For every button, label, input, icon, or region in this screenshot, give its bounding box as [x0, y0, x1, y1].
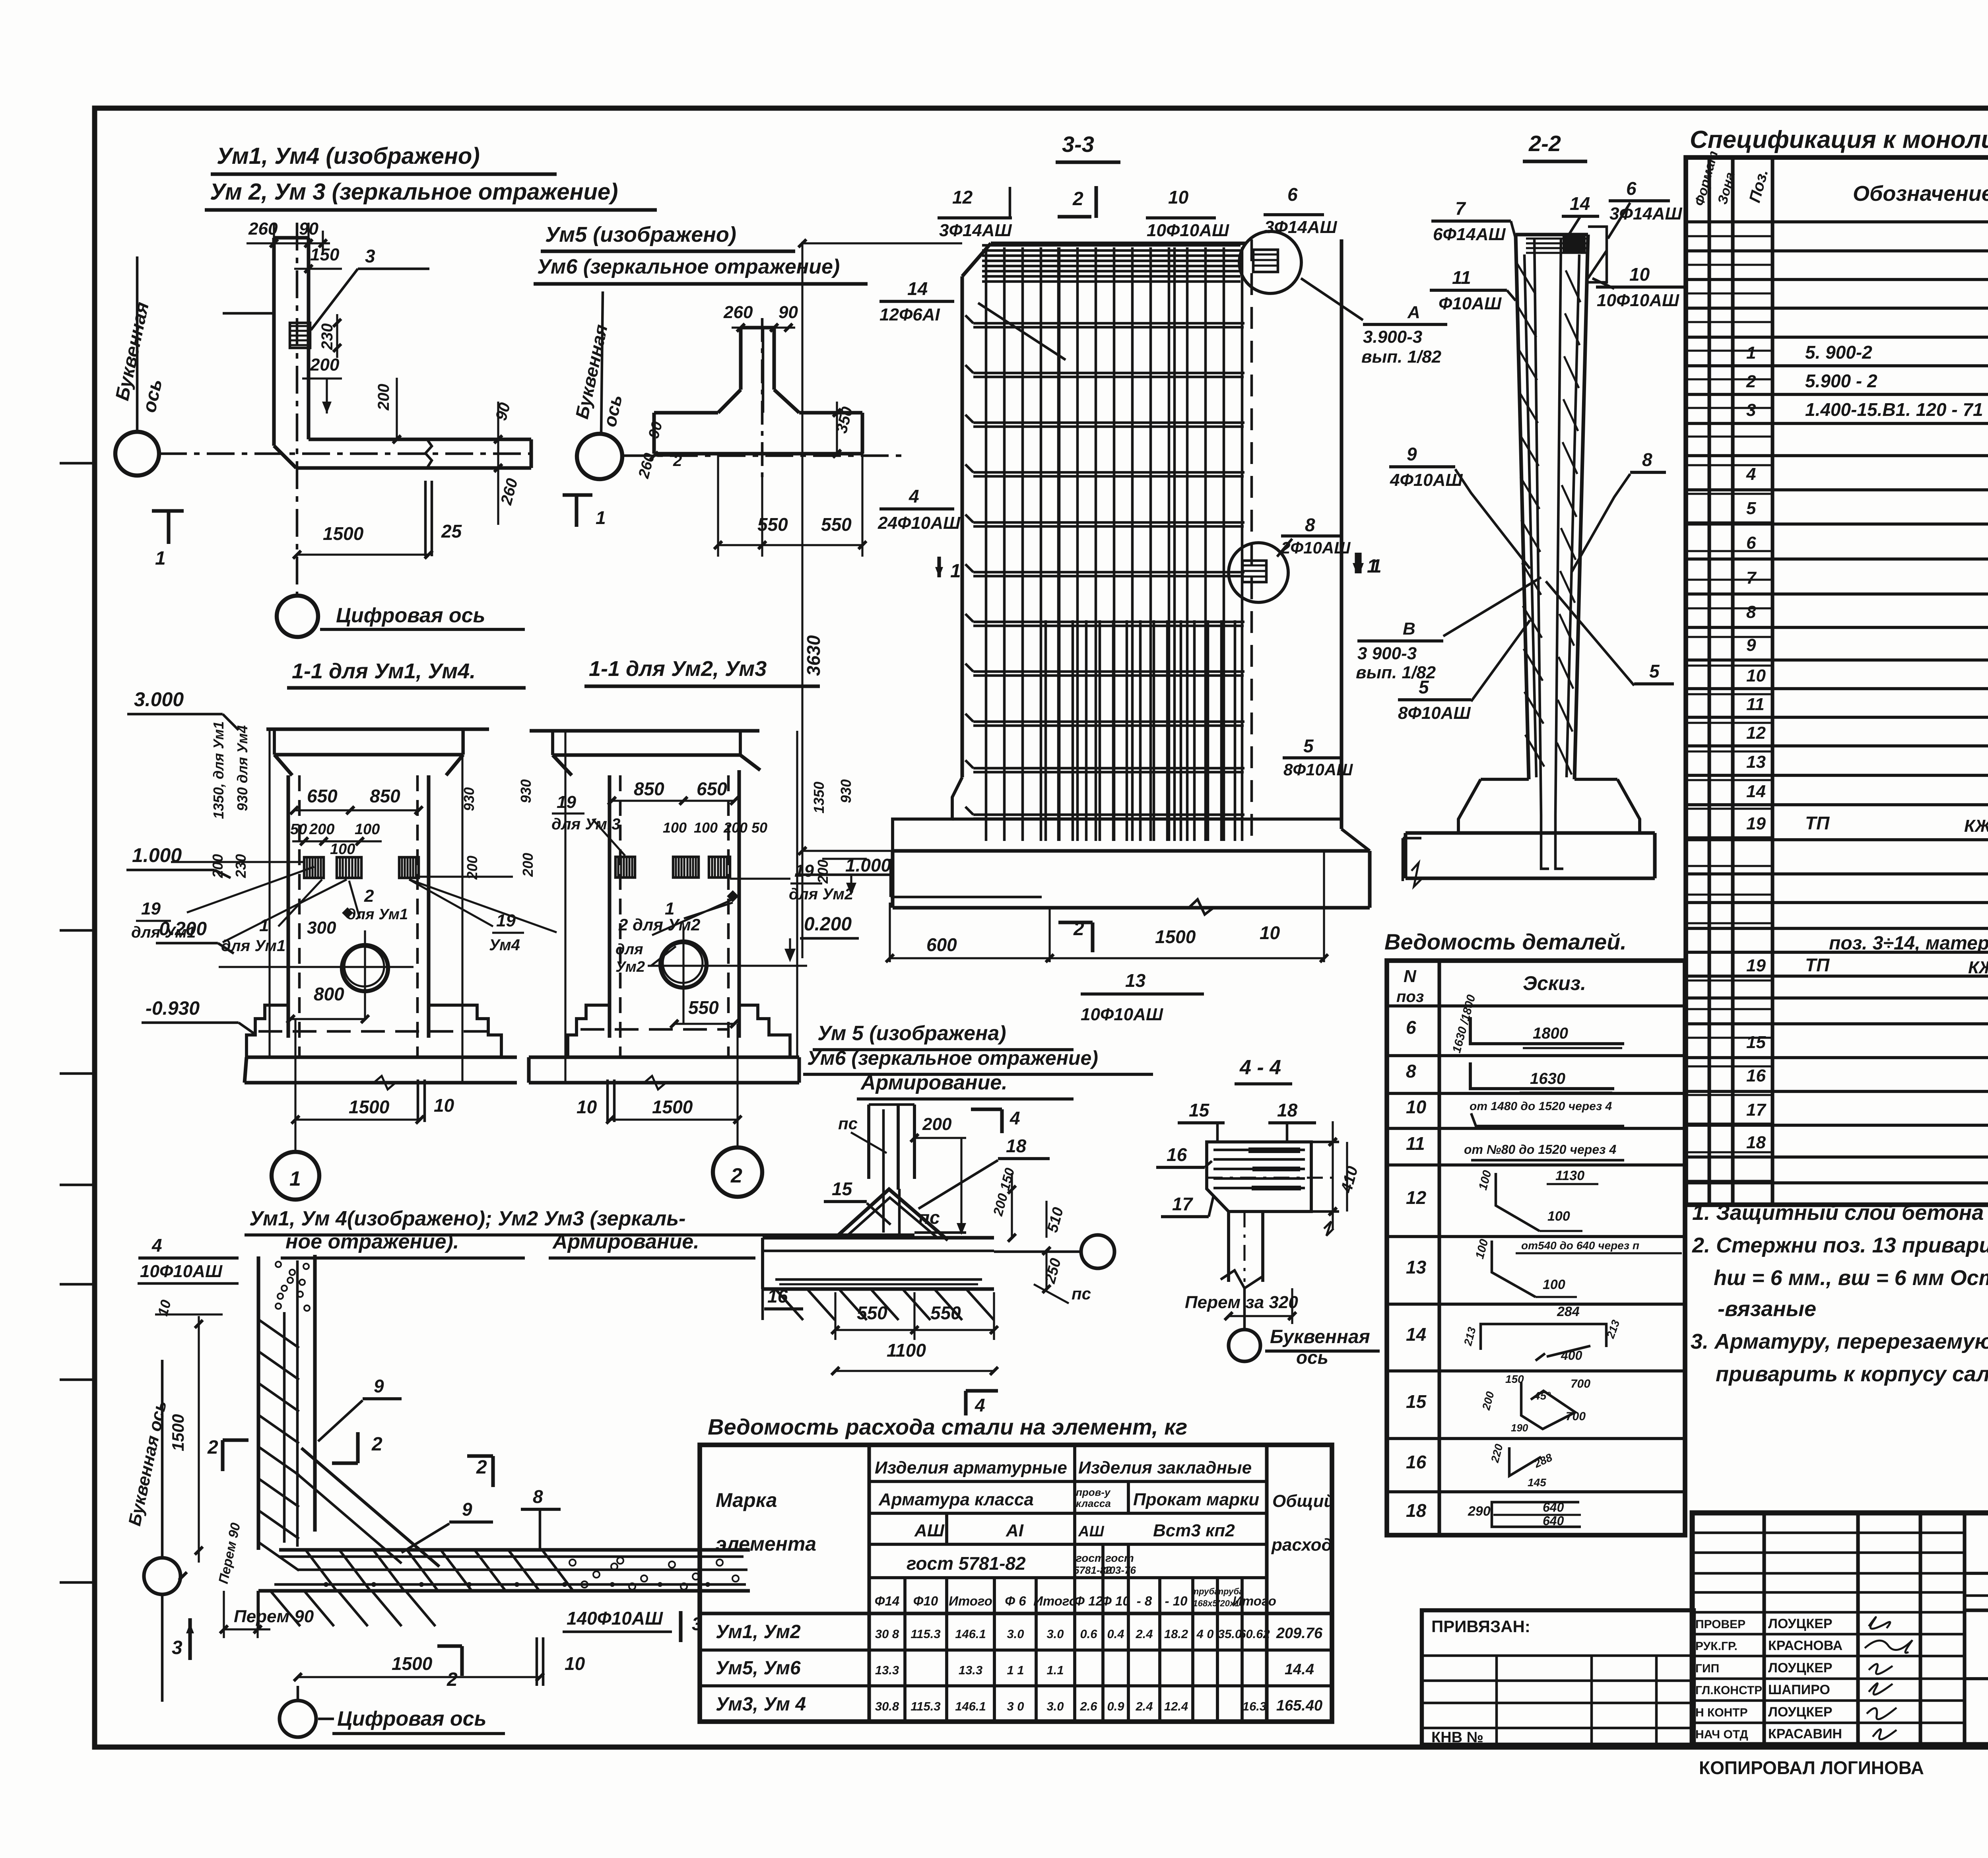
svg-text:- 10: - 10	[1165, 1594, 1188, 1608]
svg-text:2: 2	[371, 1434, 382, 1455]
svg-text:10: 10	[1406, 1097, 1427, 1117]
svg-text:146.1: 146.1	[955, 1699, 986, 1713]
pedestal left: foundation slab	[247, 1055, 517, 1059]
svg-text:0.6: 0.6	[1080, 1627, 1097, 1641]
corner det: horizontal wall	[279, 1548, 750, 1551]
svg-text:Ф 12: Ф 12	[1074, 1594, 1103, 1608]
pedestal right: foundation slab	[568, 1055, 799, 1059]
svg-text:8: 8	[533, 1486, 543, 1507]
svg-text:60.62: 60.62	[1239, 1627, 1270, 1641]
svg-text:0.200: 0.200	[159, 918, 207, 940]
title block: main divider	[1965, 1608, 1988, 1612]
steel table: header row2	[869, 1512, 1267, 1515]
svg-text:3.000: 3.000	[134, 688, 184, 711]
Um5 plan: T wall stem	[739, 328, 742, 390]
svg-text:0.200: 0.200	[804, 914, 852, 935]
svg-text:ШАПИРО: ШАПИРО	[1768, 1682, 1830, 1697]
svg-text:Ум4: Ум4	[489, 936, 520, 954]
pedestal right: capital	[530, 729, 759, 732]
svg-text:Ф 10: Ф 10	[1101, 1594, 1130, 1608]
4-4 bar bundle box	[1207, 1142, 1311, 1211]
vedomost detaley frame	[1387, 961, 1685, 1535]
svg-text:9: 9	[1407, 444, 1417, 464]
svg-text:2.4: 2.4	[1135, 1627, 1153, 1641]
svg-text:8: 8	[1406, 1061, 1416, 1081]
svg-text:1130: 1130	[1555, 1168, 1584, 1183]
svg-text:200: 200	[375, 384, 392, 411]
steel table frame	[700, 1445, 1332, 1722]
svg-text:ПРИВЯЗАН:: ПРИВЯЗАН:	[1431, 1617, 1530, 1636]
4-4 dashed centerline	[1207, 1177, 1336, 1178]
svg-text:17: 17	[1746, 1100, 1767, 1120]
svg-text:3: 3	[1746, 400, 1756, 420]
svg-text:13: 13	[1406, 1257, 1427, 1277]
3-3 bottom dense vertical rebars	[1044, 620, 1047, 841]
title block: sheet title	[1965, 1677, 1988, 1680]
svg-text:930: 930	[461, 787, 477, 811]
spec table outer frame	[1686, 157, 1988, 1205]
svg-text:4 0: 4 0	[1196, 1627, 1213, 1641]
svg-text:-вязаные: -вязаные	[1718, 1297, 1816, 1321]
pedestal left: axis line down	[294, 1019, 296, 1152]
pedestal left: opening circle	[342, 945, 388, 991]
3-3 leader from 14 into grid	[978, 303, 1066, 360]
svg-text:1: 1	[155, 548, 166, 569]
spec table row lines	[1686, 220, 1988, 223]
svg-text:ТП: ТП	[1805, 813, 1830, 833]
2-2 inner rebars	[1534, 239, 1541, 815]
svg-text:650: 650	[307, 786, 338, 806]
svg-text:800: 800	[314, 984, 344, 1004]
svg-text:12: 12	[1746, 723, 1766, 743]
2-2 rebar hooks bottom	[1541, 815, 1549, 869]
svg-text:230: 230	[318, 323, 336, 350]
svg-text:650: 650	[697, 779, 727, 799]
4-4 break mark right	[1324, 1221, 1334, 1236]
svg-text:4Ф10АШ: 4Ф10АШ	[1390, 470, 1463, 490]
Um5 plan: T wall flange	[654, 411, 718, 414]
svg-text:Ум3, Ум 4: Ум3, Ум 4	[716, 1694, 806, 1715]
Um1 plan: joint notch in horizontal wall	[425, 439, 432, 468]
svg-text:930: 930	[838, 779, 854, 803]
svg-text:18: 18	[1277, 1100, 1298, 1120]
svg-text:КРАСАВИН: КРАСАВИН	[1768, 1726, 1842, 1742]
Um5 plan: letter axis line	[601, 291, 603, 433]
um5 arm: bottom bars with hooks	[775, 1278, 982, 1281]
svg-text:14: 14	[1406, 1324, 1426, 1345]
Um5 plan: horizontal centerline	[622, 454, 903, 457]
pedestal left: capital	[266, 727, 489, 731]
svg-text:14: 14	[907, 278, 928, 299]
svg-text:расход: расход	[1271, 1535, 1332, 1555]
svg-text:пс: пс	[1072, 1284, 1091, 1303]
svg-text:вып. 1/82: вып. 1/82	[1361, 347, 1442, 367]
3-3 foundation	[893, 777, 962, 851]
svg-text:115.3: 115.3	[911, 1699, 940, 1713]
svg-text:550: 550	[857, 1303, 887, 1323]
svg-text:8: 8	[1746, 602, 1756, 622]
um5 arm: column	[867, 1105, 870, 1179]
svg-text:ТП: ТП	[1805, 955, 1830, 975]
svg-text:11: 11	[1406, 1133, 1425, 1154]
svg-text:5: 5	[1419, 677, 1429, 697]
svg-text:ное отражение).: ное отражение).	[285, 1230, 459, 1253]
steel table: header row1	[869, 1480, 1267, 1483]
pedestal right: dim 200 and level lines	[822, 858, 867, 860]
svg-text:100: 100	[663, 819, 687, 836]
svg-text:190: 190	[1511, 1422, 1528, 1434]
corner det: vertical wall	[256, 1256, 260, 1550]
svg-text:16: 16	[1167, 1144, 1187, 1165]
svg-text:9: 9	[374, 1376, 384, 1396]
svg-text:Ум2: Ум2	[615, 959, 645, 975]
2-2 top right bracket	[1588, 227, 1607, 282]
svg-text:13.3: 13.3	[959, 1663, 982, 1677]
spec table narrow-column half-pitch lines	[1686, 235, 1773, 237]
svg-text:18: 18	[1406, 1500, 1427, 1521]
um5 arm: axis circle	[1081, 1235, 1114, 1268]
svg-text:от540 до 640 через п: от540 до 640 через п	[1521, 1239, 1639, 1252]
svg-text:КРАСНОВА: КРАСНОВА	[1768, 1638, 1842, 1653]
svg-text:640: 640	[1543, 1514, 1564, 1528]
um5 arm: base slab	[763, 1236, 994, 1239]
Um1 plan: numeric axis circle	[277, 596, 318, 637]
svg-text:0.4: 0.4	[1107, 1627, 1124, 1641]
4-4 column below	[1227, 1211, 1230, 1282]
svg-text:4: 4	[909, 486, 919, 507]
pedestal right: axis line down	[736, 1024, 738, 1148]
svg-text:класса: класса	[1076, 1497, 1111, 1509]
svg-text:550: 550	[930, 1303, 961, 1323]
svg-text:АШ: АШ	[1078, 1523, 1104, 1540]
svg-text:30 8: 30 8	[875, 1627, 899, 1641]
signature table verticals	[1762, 1513, 1766, 1745]
pedestal right: opening circle	[660, 942, 707, 988]
Um1 plan: outer corner chamfer	[274, 446, 296, 468]
svg-text:17: 17	[1172, 1194, 1194, 1214]
svg-text:230: 230	[233, 854, 249, 878]
svg-text:290: 290	[1468, 1504, 1491, 1519]
svg-text:1 1: 1 1	[1007, 1663, 1024, 1677]
svg-text:2.6: 2.6	[1079, 1699, 1097, 1713]
svg-text:640: 640	[1543, 1500, 1564, 1514]
Um1 plan: wall horizontal part	[309, 437, 531, 441]
svg-text:пс: пс	[838, 1114, 858, 1133]
svg-text:Марка: Марка	[716, 1489, 777, 1511]
svg-text:КЖИ МН1: КЖИ МН1	[1968, 958, 1988, 977]
3-3 top bar bundle	[982, 244, 1241, 247]
svg-text:для Ум1: для Ум1	[221, 937, 285, 955]
svg-text:19: 19	[1746, 956, 1766, 975]
svg-text:145: 145	[1528, 1476, 1546, 1489]
svg-text:19: 19	[141, 899, 161, 918]
pedestal right: leader	[592, 819, 625, 856]
title block outer	[1692, 1513, 1988, 1745]
svg-text:1500: 1500	[349, 1097, 390, 1117]
pedestal right: foundation steps	[568, 1005, 610, 1057]
pedestal left: level line right	[419, 876, 513, 878]
svg-text:850: 850	[634, 779, 664, 799]
svg-text:3Ф14АШ: 3Ф14АШ	[1264, 217, 1338, 237]
corner det: vertical wall hatch	[259, 1320, 299, 1348]
svg-text:24Ф10АШ: 24Ф10АШ	[878, 513, 961, 533]
svg-text:5. 900-2: 5. 900-2	[1805, 342, 1872, 363]
svg-text:ЛОУЦКЕР: ЛОУЦКЕР	[1768, 1660, 1833, 1676]
svg-text:6Ф14АШ: 6Ф14АШ	[1433, 225, 1506, 244]
svg-text:1-1 для Ум2, Ум3: 1-1 для Ум2, Ум3	[589, 657, 767, 681]
svg-text:для Ум1: для Ум1	[347, 906, 408, 923]
svg-text:100: 100	[694, 819, 718, 836]
svg-text:19: 19	[496, 911, 516, 930]
svg-text:12: 12	[1406, 1187, 1427, 1208]
svg-text:Итого: Итого	[1033, 1594, 1077, 1608]
svg-text:200: 200	[815, 860, 831, 884]
svg-text:1800: 1800	[1533, 1025, 1568, 1042]
svg-text:гост 5781-82: гост 5781-82	[907, 1553, 1026, 1574]
3-3 left dim line 3630	[801, 242, 803, 958]
Um1 plan: stub line to left	[223, 312, 274, 315]
svg-text:115.3: 115.3	[911, 1627, 940, 1641]
signature squiggles	[1869, 1617, 1890, 1629]
svg-text:10Ф10АШ: 10Ф10АШ	[1081, 1005, 1163, 1024]
pedestal right: embedded blocks	[615, 857, 635, 878]
svg-text:Армирование.: Армирование.	[860, 1071, 1008, 1094]
Um1 plan: gap lines 25	[424, 481, 427, 556]
svg-text:1: 1	[596, 507, 606, 528]
svg-text:700: 700	[1571, 1377, 1590, 1390]
2-2 wall hatching right	[1566, 270, 1580, 302]
pedestal right: level dashes	[580, 1028, 728, 1031]
svg-text:1500: 1500	[392, 1653, 433, 1674]
svg-text:2: 2	[447, 1669, 458, 1690]
svg-text:16: 16	[767, 1286, 788, 1307]
svg-text:3630: 3630	[803, 635, 824, 676]
svg-text:Перем за 320: Перем за 320	[1185, 1293, 1298, 1312]
pedestal left: column body	[286, 775, 290, 1038]
svg-text:15: 15	[1189, 1100, 1210, 1120]
svg-text:КНВ №: КНВ №	[1431, 1729, 1483, 1746]
svg-text:19: 19	[557, 792, 576, 812]
svg-text:2.4: 2.4	[1135, 1699, 1153, 1713]
svg-text:6: 6	[1406, 1017, 1416, 1038]
svg-text:19: 19	[1746, 814, 1766, 833]
svg-text:100: 100	[1547, 1209, 1570, 1224]
svg-text:Буквенная: Буквенная	[1270, 1326, 1370, 1347]
svg-text:Перем 90: Перем 90	[234, 1607, 314, 1626]
svg-text:5.900 - 2: 5.900 - 2	[1805, 371, 1877, 391]
svg-text:Ф10АШ: Ф10АШ	[1439, 294, 1502, 313]
pedestal left: circle centerlines	[219, 966, 414, 968]
svg-text:Ф10: Ф10	[913, 1594, 938, 1608]
pedestal left: foundation level dashes	[258, 1030, 497, 1033]
corner det: section marker 3 (left bottom)	[188, 1618, 192, 1660]
svg-text:1500: 1500	[323, 523, 364, 544]
2-2 foundation	[1458, 779, 1481, 833]
svg-text:2: 2	[673, 452, 682, 470]
2-2 wall hatching left	[1516, 262, 1536, 294]
svg-text:8Ф10АШ: 8Ф10АШ	[1398, 703, 1471, 723]
svg-text:элемента: элемента	[716, 1533, 816, 1555]
svg-text:146.1: 146.1	[955, 1627, 986, 1641]
signature table row lines	[1692, 1532, 1965, 1534]
svg-text:1.000: 1.000	[132, 844, 182, 866]
svg-text:Н КОНТР: Н КОНТР	[1695, 1706, 1748, 1719]
svg-text:ось: ось	[1296, 1347, 1328, 1368]
svg-text:3.0: 3.0	[1046, 1699, 1064, 1713]
svg-text:1500: 1500	[652, 1097, 693, 1117]
svg-text:гост: гост	[1076, 1552, 1105, 1564]
um5 arm: section marker 4 top	[971, 1107, 1002, 1111]
svg-text:2: 2	[1072, 188, 1083, 210]
svg-text:7: 7	[1455, 198, 1466, 219]
svg-text:168х5: 168х5	[1193, 1598, 1217, 1608]
svg-text:2: 2	[476, 1457, 487, 1478]
svg-text:Цифровая ось: Цифровая ось	[337, 1707, 486, 1730]
pedestal left: level line 200 left	[171, 861, 304, 863]
sketch poz8: bar 1630	[1470, 1062, 1614, 1089]
2-2 foundation left tick/break	[1403, 837, 1421, 840]
svg-text:10: 10	[434, 1095, 454, 1116]
privyazan table	[1422, 1610, 1694, 1745]
svg-text:1350: 1350	[811, 782, 827, 813]
svg-text:19: 19	[794, 861, 814, 881]
corner det: concrete dots top	[276, 1262, 281, 1267]
svg-text:700: 700	[1566, 1410, 1586, 1423]
svg-text:10: 10	[577, 1097, 597, 1117]
svg-text:hш = 6 мм., вш = 6 мм Осталь: hш = 6 мм., вш = 6 мм Остальные соединен…	[1714, 1266, 1988, 1290]
svg-text:3-3: 3-3	[1062, 132, 1094, 157]
svg-text:2-2: 2-2	[1528, 131, 1561, 156]
svg-text:13: 13	[1746, 752, 1766, 772]
spec table column lines	[1707, 157, 1711, 1205]
svg-text:200: 200	[309, 821, 334, 838]
svg-text:1350, для Ум1: 1350, для Ум1	[210, 721, 227, 819]
4-4 break bottom	[1221, 1270, 1263, 1288]
svg-text:Обозначение: Обозначение	[1853, 182, 1988, 206]
svg-text:Ум6 (зеркальное отражение): Ум6 (зеркальное отражение)	[537, 255, 840, 278]
svg-text:1: 1	[289, 1167, 301, 1190]
svg-text:ПРОВЕР: ПРОВЕР	[1695, 1618, 1745, 1631]
svg-text:100: 100	[1543, 1277, 1565, 1292]
corner det: axis circle letter	[144, 1558, 181, 1594]
pedestal right: leader lines	[652, 899, 733, 935]
svg-text:4: 4	[151, 1235, 162, 1256]
svg-text:6: 6	[1626, 178, 1637, 199]
svg-text:2: 2	[207, 1437, 218, 1458]
svg-text:1: 1	[1746, 343, 1756, 363]
svg-text:8Ф10АШ: 8Ф10АШ	[1283, 760, 1353, 779]
2-2 column outline	[1516, 235, 1529, 779]
svg-text:1: 1	[950, 561, 961, 582]
svg-text:100: 100	[355, 821, 380, 838]
svg-text:13.3: 13.3	[875, 1663, 899, 1677]
svg-text:12: 12	[952, 187, 973, 208]
svg-text:Итого: Итого	[949, 1594, 992, 1608]
svg-text:Ум1, Ум4 (изображено): Ум1, Ум4 (изображено)	[217, 143, 480, 169]
svg-text:Ум1, Ум 4(изображено); Ум2 Ум3: Ум1, Ум 4(изображено); Ум2 Ум3 (зеркаль-	[249, 1207, 685, 1230]
svg-text:АI: АI	[1006, 1521, 1024, 1540]
svg-text:В: В	[1403, 619, 1415, 639]
pedestal left: center mark dot	[342, 907, 353, 918]
steel table: header row4 gost	[869, 1576, 1267, 1579]
svg-text:Ведомость расхода стали на эл: Ведомость расхода стали на элемент, кг	[708, 1414, 1187, 1439]
svg-text:-0.930: -0.930	[146, 998, 200, 1019]
svg-text:103-76: 103-76	[1104, 1564, 1136, 1576]
svg-text:850: 850	[370, 786, 400, 806]
um5 arm: section marker 4 bottom	[964, 1391, 967, 1415]
Um1 plan: horizontal centerline	[159, 452, 531, 455]
4-4 right extension and dim 410	[1311, 1141, 1339, 1144]
svg-text:1630: 1630	[1530, 1070, 1565, 1087]
svg-text:16.3: 16.3	[1242, 1699, 1266, 1713]
svg-text:Ум5 (изображено): Ум5 (изображено)	[545, 223, 736, 247]
svg-text:16: 16	[1406, 1452, 1427, 1472]
svg-text:100: 100	[330, 841, 355, 858]
svg-text:209.76: 209.76	[1276, 1625, 1323, 1642]
svg-text:10: 10	[1746, 666, 1766, 685]
svg-text:пров-у: пров-у	[1076, 1486, 1111, 1498]
svg-text:А: А	[1407, 303, 1420, 322]
2-2 leader A to 3-3 circle	[1301, 278, 1363, 320]
svg-text:от №80 до 1520 через 4: от №80 до 1520 через 4	[1464, 1142, 1616, 1157]
svg-text:12.4: 12.4	[1164, 1699, 1188, 1713]
um5 arm: hatch band under slab	[775, 1289, 803, 1320]
svg-text:Общий: Общий	[1272, 1491, 1334, 1511]
svg-text:Изделия закладные: Изделия закладные	[1078, 1458, 1252, 1477]
corner det: hatch band below corner	[270, 1591, 300, 1626]
svg-text:10Ф10АШ: 10Ф10АШ	[1597, 291, 1679, 310]
svg-text:550: 550	[821, 514, 852, 535]
svg-text:КОПИРОВАЛ ЛОГИНОВА: КОПИРОВАЛ ЛОГИНОВА	[1699, 1757, 1924, 1778]
svg-text:200: 200	[520, 853, 536, 877]
2-2 top cap plate	[1563, 235, 1586, 253]
svg-text:4: 4	[975, 1395, 985, 1415]
svg-text:200: 200	[464, 856, 480, 880]
3-3 slab break mark	[1189, 899, 1213, 914]
svg-text:50: 50	[751, 819, 767, 836]
pedestal right: center diamond mark	[727, 890, 739, 902]
svg-text:1.1: 1.1	[1046, 1663, 1064, 1677]
svg-text:14: 14	[1570, 193, 1590, 214]
corner det: concrete dots right end	[569, 1559, 576, 1566]
svg-text:Прокат марки: Прокат марки	[1133, 1490, 1259, 1509]
Um1 plan: welded joint hatched block	[290, 323, 310, 348]
svg-text:3.0: 3.0	[1007, 1627, 1024, 1641]
svg-text:2: 2	[364, 886, 374, 906]
corner det: horizontal rebar lines	[278, 1555, 744, 1558]
corner det: horizontal wall hatch	[306, 1551, 336, 1590]
3-3 detail circle A (top right)	[1239, 231, 1301, 293]
Um5 plan: letter axis circle	[577, 434, 622, 479]
svg-text:4: 4	[1010, 1108, 1020, 1128]
svg-text:10: 10	[1168, 187, 1189, 208]
pedestal left: leader lines to blocks	[187, 867, 314, 912]
svg-text:200: 200	[310, 355, 340, 375]
svg-text:18.2: 18.2	[1164, 1627, 1188, 1641]
svg-text:1500: 1500	[1155, 926, 1196, 947]
svg-text:1: 1	[1367, 556, 1378, 577]
pedestal left: axis circle 1	[272, 1152, 319, 1200]
svg-text:Ф14: Ф14	[875, 1594, 899, 1608]
pedestal right: extension lines	[564, 731, 566, 1083]
svg-text:2: 2	[1746, 372, 1756, 391]
3-3 horizontal rebars	[973, 322, 1244, 325]
svg-text:3: 3	[172, 1637, 182, 1658]
pedestal left: slab break mark	[374, 1076, 396, 1089]
pedestal left: embedded part blocks	[304, 857, 324, 878]
svg-text:ЛОУЦКЕР: ЛОУЦКЕР	[1768, 1616, 1833, 1631]
3-3 elevation 0.200 arrow	[850, 875, 852, 887]
